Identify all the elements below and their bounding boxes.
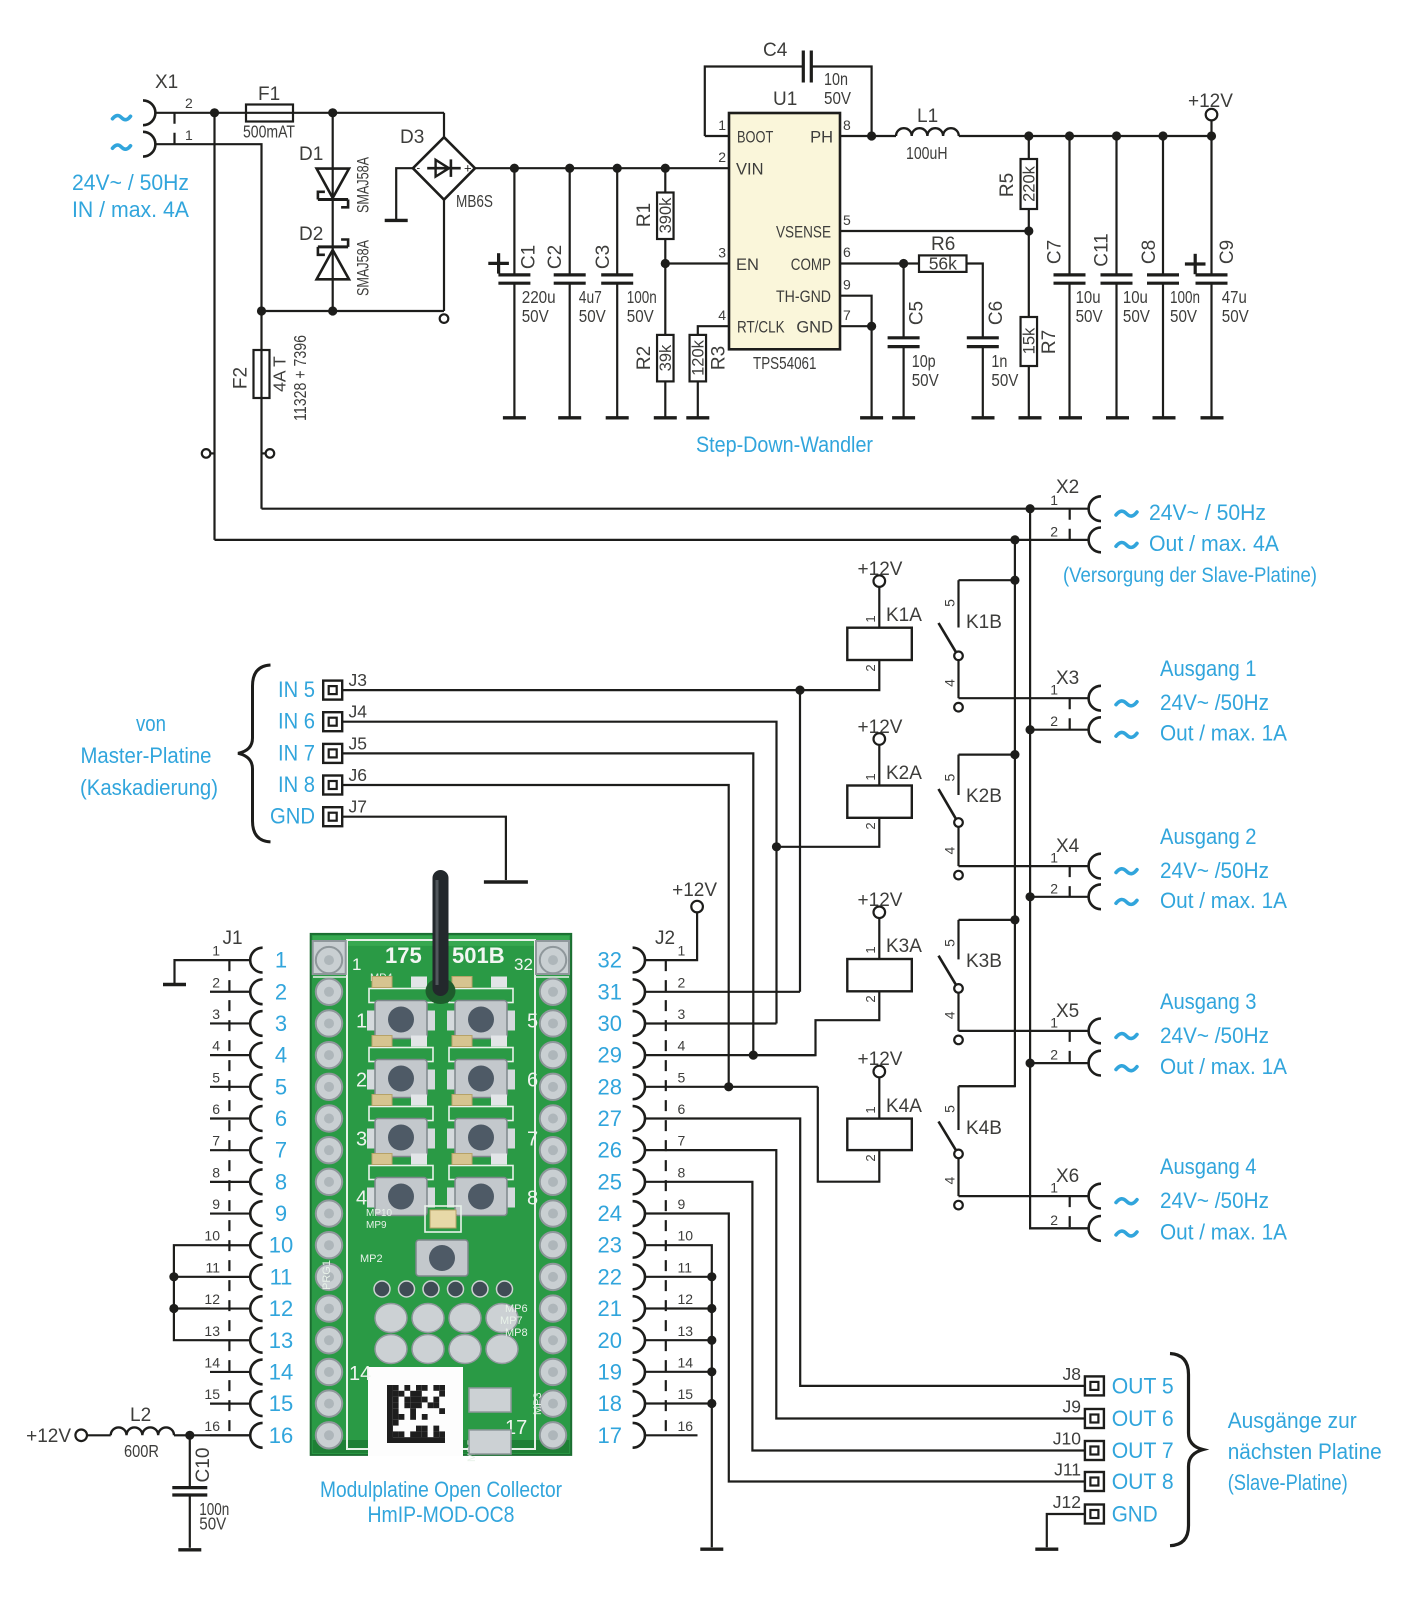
node J1 pin11 [169,1272,178,1281]
R2 value 39k [657,344,675,371]
J2 pin 10 number [678,1228,694,1244]
J1 pin 10 number [204,1228,220,1244]
C11 ground [1106,416,1129,419]
svg-text:C10: C10 [193,1448,214,1483]
svg-text:X1: X1 [155,72,178,93]
J1 pin 4 number [212,1038,220,1054]
J2 cyan number 22 [598,1264,622,1289]
svg-text:21: 21 [598,1296,622,1321]
label OUT 6 [1112,1406,1174,1431]
J10 label [1053,1429,1081,1449]
J2 pin 8 number [678,1164,686,1180]
svg-text:1: 1 [863,773,878,780]
J2 pin 9 number [678,1196,686,1212]
J11 label [1054,1460,1081,1480]
svg-text:SMAJ58A: SMAJ58A [354,240,372,296]
svg-text:MP9: MP9 [366,1220,387,1231]
svg-text:30: 30 [598,1011,622,1036]
J2 cyan number 28 [598,1074,622,1099]
svg-text:Out / max. 1A: Out / max. 1A [1160,1054,1287,1079]
R1 value 390k [657,197,675,234]
svg-text:PH: PH [810,129,833,147]
wire R6 to C6 [967,264,983,338]
svg-text:D3: D3 [400,127,424,148]
svg-text:24V~ /50Hz: 24V~ /50Hz [1160,858,1269,883]
J1 pin 4 stub [210,1054,250,1056]
svg-text:220k: 220k [1021,165,1039,202]
connector X6 with labels Ausgang 4 [959,1154,1288,1244]
svg-text:13: 13 [204,1323,220,1339]
K3A label [886,936,922,957]
C3 value [627,287,657,326]
svg-text:D2: D2 [299,224,323,245]
J2 pin 5 number [678,1069,686,1085]
J2 pin7 wire to OUT6 [645,1150,1084,1418]
svg-text:8: 8 [527,1188,538,1210]
pad J4 [323,712,342,731]
J1 pin 15 cyan number [269,1391,293,1416]
J1 pin 3 number [212,1006,220,1022]
+12V above J2 [672,880,717,901]
svg-text:X6: X6 [1056,1166,1079,1187]
relay contact K3B [939,920,1015,1044]
J2 cyan number 20 [598,1328,622,1353]
node K1B on trunk A [1010,576,1019,585]
K4A pin2 number [863,1154,878,1161]
svg-text:J11: J11 [1054,1460,1081,1480]
svg-text:6: 6 [527,1070,538,1092]
svg-text:2: 2 [1050,1212,1058,1228]
J2 pin 10 receptacle [633,1233,645,1258]
L2 value 600R [124,1441,159,1461]
J2 pin5 wire to K4A [645,1086,818,1088]
svg-text:501B: 501B [452,943,505,968]
J1 pin11 tie [174,1276,210,1278]
K1A pin1 number [863,615,878,622]
svg-text:4: 4 [941,846,957,854]
J2 pin8 wire to OUT7 [645,1182,1084,1451]
C9 label [1217,240,1238,264]
relay coil K2A [847,733,912,818]
svg-text:24V~ /50Hz: 24V~ /50Hz [1160,1023,1269,1048]
K3B label [966,951,1002,972]
C7 value [1076,287,1103,326]
J2 pin 6 receptacle [633,1106,645,1131]
svg-text:J12: J12 [1053,1492,1081,1512]
svg-text:20: 20 [598,1328,622,1353]
X2 pin2 wire [215,539,1089,541]
svg-text:9: 9 [212,1196,220,1212]
U1 pin5 VSENSE stub [840,230,1029,232]
U1 pin5 number [843,212,851,228]
svg-text:5: 5 [212,1069,220,1085]
node trunkA top [1010,535,1019,544]
C2 ground [558,416,581,419]
R1 label [634,203,655,227]
J2 pin 9 receptacle [633,1201,645,1226]
J1 pin 12 receptacle [250,1296,262,1321]
svg-text:1: 1 [356,1011,367,1033]
svg-text:Modulplatine Open Collector: Modulplatine Open Collector [320,1477,562,1502]
svg-text:IN 7: IN 7 [278,740,315,765]
wire node to J2 pin2 [799,690,801,992]
svg-text:50V: 50V [199,1514,226,1534]
C10 value [199,1499,229,1534]
svg-text:(Kaskadierung): (Kaskadierung) [80,775,218,800]
J1 pin 16 number [204,1418,220,1434]
capacitor C4 loop [705,51,872,137]
C5 ground [892,416,915,419]
C8 label [1139,240,1160,264]
svg-text:47u: 47u [1222,287,1247,307]
+12V at K1A [858,559,903,580]
J1 pin 4 receptacle [250,1043,262,1068]
J1 pin 6 cyan number [275,1106,287,1131]
label von Master-Platine (Kaskadierung) [80,711,218,800]
svg-text:OUT 5: OUT 5 [1112,1373,1174,1398]
svg-text:GND: GND [796,319,833,337]
svg-text:IN / max. 4A: IN / max. 4A [72,197,189,222]
inductor L2 [87,1427,190,1435]
label Modulplatine Open Collector HmIP-MOD-OC8 [320,1477,562,1527]
svg-text:IN 5: IN 5 [278,677,315,702]
brace von Master-Platine [238,665,271,842]
J6 label [349,765,367,785]
svg-text:50V: 50V [579,306,606,326]
node X1 pin2 branch [210,108,219,117]
svg-text:J10: J10 [1053,1429,1081,1449]
resistor R6 [919,255,967,272]
svg-text:14: 14 [349,1363,371,1385]
C2 value [579,287,606,326]
svg-text:Ausgang 2: Ausgang 2 [1160,824,1257,849]
U1 pin6 COMP stub [840,262,919,264]
K4B label [966,1118,1002,1139]
J1 pin 13 cyan number [269,1328,293,1353]
trunk B wire [1030,509,1089,1229]
J2 cyan number 24 [598,1201,622,1226]
svg-text:16: 16 [204,1418,220,1434]
U1 pin4 number [718,307,726,323]
J2 cyan number 21 [598,1296,622,1321]
svg-text:Out / max. 1A: Out / max. 1A [1160,888,1287,913]
J2 pin 15 receptacle [633,1391,645,1416]
D3 label [400,127,424,148]
J1 pin 3 stub [210,1022,250,1024]
label OUT 8 [1112,1469,1174,1494]
U1 pin name PH [810,129,833,147]
label OUT 5 [1112,1373,1174,1398]
U1 pin1 BOOT stub [705,135,729,137]
R5 value 220k [1021,165,1039,202]
+12V output label [1188,91,1233,112]
K3B pin5 number [941,939,957,947]
X2 key dashes [1069,509,1071,540]
IC U1 body [729,113,840,349]
label OUT 7 [1112,1438,1174,1463]
K2B pin5 number [941,773,957,781]
svg-text:100uH: 100uH [906,143,948,163]
U1 pin name VSENSE [776,224,831,242]
J1 pin 10 receptacle [250,1233,262,1258]
J1 pin 13 receptacle [250,1328,262,1353]
J12 ground [1035,1547,1058,1550]
J12 label [1053,1492,1081,1512]
svg-text:27: 27 [598,1106,622,1131]
svg-text:U1: U1 [773,89,797,110]
J5 label [349,733,367,753]
svg-text:-: - [417,163,421,175]
svg-text:Step-Down-Wandler: Step-Down-Wandler [696,432,873,457]
J1 pin 16 receptacle [250,1423,262,1448]
K4A coil low wire [818,1087,880,1182]
J1 pin 9 stub [210,1212,250,1214]
C6 label [986,301,1007,325]
svg-text:COMP: COMP [791,256,831,274]
svg-text:Ausgang 4: Ausgang 4 [1160,1154,1257,1179]
capacitor C9 [1196,136,1228,418]
resistor R3 [690,326,729,418]
svg-text:5: 5 [678,1069,686,1085]
X2 labels [1149,500,1279,556]
svg-text:14: 14 [678,1354,694,1370]
K4B pin4 number [941,1176,957,1184]
C1 value [522,287,556,326]
J7 ground [484,880,528,884]
F1 label [258,84,280,105]
TH-GND ground [860,416,883,419]
fuse F1 [246,105,293,122]
svg-text:+12V: +12V [672,880,717,901]
relay coil K4A [847,1066,912,1150]
svg-text:IN 8: IN 8 [278,772,315,797]
node D1 top [328,108,337,117]
svg-text:MP10: MP10 [366,1208,393,1219]
svg-text:1: 1 [1050,1180,1058,1196]
svg-text:EN: EN [736,256,759,274]
svg-text:MP8: MP8 [505,1327,528,1339]
C6 value [991,351,1018,390]
svg-text:GND: GND [270,804,315,829]
J1 pin 6 stub [210,1117,250,1119]
R2 label [634,346,655,370]
svg-text:1n: 1n [991,351,1007,371]
wire X1 pin1 to F2 corner [156,144,262,350]
pad J6 [323,776,342,795]
svg-text:K3A: K3A [886,936,922,957]
svg-text:2: 2 [185,95,193,111]
svg-text:50V: 50V [1222,306,1249,326]
svg-text:R5: R5 [997,173,1018,197]
svg-text:J3: J3 [349,670,367,690]
J2 pin 14 receptacle [633,1360,645,1385]
U1 pin9 TH-GND stub [840,296,872,418]
pad J12 [1085,1505,1104,1524]
svg-text:4: 4 [275,1043,287,1068]
U1 pin8 number [843,117,851,133]
svg-text:+12V: +12V [26,1426,71,1447]
J1 pin 13 number [204,1323,220,1339]
J12 wire [1047,1514,1085,1547]
capacitor C8 [1147,136,1179,418]
K2A pin2 number [863,822,878,829]
svg-text:24: 24 [598,1201,622,1226]
svg-text:(Slave-Platine): (Slave-Platine) [1228,1470,1348,1495]
K1A label [886,605,922,626]
J2 cyan number 29 [598,1043,622,1068]
wire X1 pin2 to F1 [156,112,247,114]
label IN 6 [278,709,315,734]
svg-text:8: 8 [212,1164,220,1180]
J2 header label [655,928,675,949]
J1 pin 7 stub [210,1149,250,1151]
label 24V~ / 50Hz IN / max. 4A [72,170,189,222]
node K2B on trunk A [1010,750,1019,759]
J2 cyan number 31 [598,979,622,1004]
wire J3 to K1A node [342,689,800,691]
C8 value [1170,287,1200,326]
label IN 5 [278,677,315,702]
J4 label [349,702,368,722]
svg-text:RT/CLK: RT/CLK [737,319,785,337]
J9 label [1063,1397,1081,1417]
node L2 C10 [185,1431,194,1440]
fuse F2 [254,350,270,398]
J1 pin 5 cyan number [275,1074,287,1099]
label Step-Down-Wandler [696,432,873,457]
svg-text:1: 1 [185,127,193,143]
svg-text:9: 9 [843,277,851,293]
pad J3 [323,681,342,700]
J1 pin 2 number [212,974,220,990]
C5 value [912,351,939,390]
+12V at K2A [858,717,903,738]
J1 pin 6 receptacle [250,1106,262,1131]
svg-text:11: 11 [678,1259,693,1275]
pad J7 [323,807,342,826]
node X3 pin2 on trunk B [1026,725,1035,734]
J1 pin 7 receptacle [250,1138,262,1163]
J1 pin 6 number [212,1101,220,1117]
J1 pin 14 number [204,1354,220,1370]
relay contact K1B [939,580,1015,711]
node X4 pin2 on trunk B [1026,892,1035,901]
node J2 pin14 gnd rail [707,1367,716,1376]
svg-text:13: 13 [269,1328,293,1353]
C11 label [1092,233,1113,266]
node J6 J2pin5 K4A [724,1082,733,1091]
J2 pin9 wire to OUT8 [645,1214,1084,1482]
J1 key dashes [228,960,230,1435]
svg-text:2: 2 [212,974,220,990]
svg-text:4: 4 [212,1038,220,1054]
svg-text:J4: J4 [349,702,368,722]
svg-text:2: 2 [275,979,287,1004]
svg-text:4: 4 [718,307,726,323]
J1 pin 11 receptacle [250,1265,262,1290]
J1 pin 8 number [212,1164,220,1180]
svg-text:1: 1 [1050,850,1058,866]
svg-text:3: 3 [212,1006,220,1022]
J1 pin 8 receptacle [250,1169,262,1194]
svg-text:K2A: K2A [886,763,922,784]
J1 pin 13 stub [210,1339,250,1341]
J2 pin10 ground rail [645,1245,712,1547]
svg-text:15: 15 [204,1386,220,1402]
R7 label [1039,330,1060,354]
svg-text:13: 13 [678,1323,694,1339]
J2 cyan number 26 [598,1138,622,1163]
svg-text:50V: 50V [1123,306,1150,326]
J2 cyan number 30 [598,1011,622,1036]
R7 value 15k [1021,327,1039,354]
J1 pin 11 cyan number [270,1264,293,1289]
J2 pin 2 number [678,974,686,990]
J2 pin 3 receptacle [633,1011,645,1036]
J1 pin 5 receptacle [250,1074,262,1099]
U1 pin9 number [843,277,851,293]
svg-text:MB6S: MB6S [456,191,493,211]
J1 pin 9 number [212,1196,220,1212]
J2 pin2 wire [645,991,800,993]
node C8 top [1158,131,1167,140]
J2 cyan number 19 [598,1359,622,1384]
svg-text:50V: 50V [824,88,851,108]
pad J8 [1085,1376,1104,1395]
svg-text:3: 3 [275,1011,287,1036]
J2 pin 7 number [678,1133,686,1149]
svg-text:6: 6 [678,1101,686,1117]
J8 label [1063,1364,1081,1384]
svg-text:C9: C9 [1217,240,1238,264]
J2 pin12 tie [645,1307,712,1309]
bottom rail wire [262,310,445,312]
X2 pin1 wire [262,508,1089,510]
capacitor C10 [172,1435,207,1548]
R7 ground [1019,416,1042,419]
svg-text:390k: 390k [657,197,675,234]
capacitor C1 [498,168,530,418]
J2 cyan number 18 [598,1391,622,1416]
resistor R1 [657,168,674,263]
AC tilde upper at X1 [112,116,130,120]
C9 value [1222,287,1249,326]
R3 value 120k [690,339,708,376]
J1 pin 12 stub [210,1307,250,1309]
capacitor C11 [1101,136,1133,418]
svg-text:C8: C8 [1139,240,1160,264]
F2 label [231,367,252,389]
R2 ground [654,416,677,419]
svg-text:4A T: 4A T [270,356,290,392]
node R1 R2 EN [661,259,670,268]
node J2 pin12 gnd rail [707,1304,716,1313]
capacitor C5 [888,264,920,418]
svg-text:12: 12 [678,1291,694,1307]
J1 pin 5 stub [210,1086,250,1088]
J1 pin 1 stub [210,959,250,961]
svg-text:GND: GND [1112,1502,1158,1527]
J1 pin12 tie [174,1307,210,1309]
board pin marker circle left [202,449,215,458]
node J2 pin15 gnd rail [707,1399,716,1408]
connector X3 with labels Ausgang 1 [959,656,1288,746]
L2 label [130,1405,151,1426]
svg-text:10n: 10n [824,69,848,89]
J1 pin 15 receptacle [250,1391,262,1416]
D3 minus terminal circle [440,314,449,323]
svg-text:6: 6 [843,244,851,260]
